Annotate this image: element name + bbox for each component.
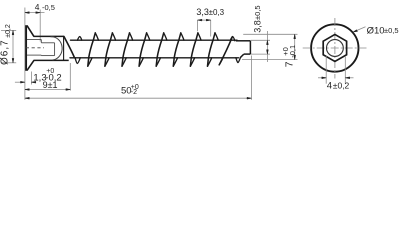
hexagon xyxy=(323,34,346,61)
socket hidden lines xyxy=(26,37,62,60)
thread period 6 flank xyxy=(173,33,181,66)
socket inner right vertical xyxy=(54,43,56,56)
thread period 8 top crest xyxy=(215,33,218,40)
socket bottom step xyxy=(40,54,42,57)
dimension 50 +0/-2 xyxy=(250,56,252,100)
thread start transition from neck xyxy=(64,36,75,57)
bottom root line xyxy=(70,57,239,59)
thread period 3 flank xyxy=(122,33,130,66)
head top cone xyxy=(27,25,34,36)
dimension 9±1 xyxy=(69,63,71,91)
svg-text:3,3: 3,3 xyxy=(196,7,209,17)
svg-text:3,8: 3,8 xyxy=(252,20,262,33)
thread runout arc xyxy=(51,37,63,60)
svg-text:±0,5: ±0,5 xyxy=(253,5,262,20)
socket dashed centerline xyxy=(26,47,44,49)
svg-text:4: 4 xyxy=(35,2,40,12)
head bottom cone xyxy=(27,60,34,70)
thread period 4 bottom crest xyxy=(139,58,143,66)
thread period 1 flank xyxy=(88,33,96,66)
thread period 3 bottom crest xyxy=(122,58,126,66)
thread period 8 flank xyxy=(208,33,216,66)
thread period 7 bottom crest xyxy=(190,58,194,66)
screw head face xyxy=(25,25,27,71)
thread period 5 flank xyxy=(156,33,164,66)
dimension 3,3±0,3 xyxy=(197,20,199,31)
last flank xyxy=(219,37,232,65)
thread period 7 flank xyxy=(190,33,198,66)
thread period 1 top crest xyxy=(95,33,98,40)
svg-text:±0,2: ±0,2 xyxy=(333,80,350,90)
thread period 4 flank xyxy=(139,33,147,66)
dimension Ø6,7±0,2 xyxy=(1,29,16,31)
socket bottom line xyxy=(27,54,41,56)
svg-text:9±1: 9±1 xyxy=(43,80,58,90)
dimension 3,8±0,5 (vertical at tip) xyxy=(251,39,270,41)
top root line xyxy=(71,39,238,41)
dimension 4 -0,5 line xyxy=(25,12,45,14)
neck top line xyxy=(34,35,64,37)
svg-text:±0,5: ±0,5 xyxy=(384,26,399,35)
tip xyxy=(236,41,250,58)
runout bottom spike xyxy=(75,58,80,64)
thread period 6 bottom crest xyxy=(173,58,177,66)
thread period 3 top crest xyxy=(130,33,133,40)
runout top spike xyxy=(77,37,81,41)
thread period 6 top crest xyxy=(181,33,184,40)
svg-text:-2: -2 xyxy=(131,89,137,96)
extension line common left (head face plane) xyxy=(24,8,26,100)
leader Ø10±0,5 xyxy=(353,27,365,32)
thread period 2 bottom crest xyxy=(105,58,109,66)
svg-text:7: 7 xyxy=(283,61,295,67)
last bottom spike (shallow, near k8) xyxy=(219,58,223,65)
svg-text:Ø6,7: Ø6,7 xyxy=(0,39,11,65)
thread period 8 bottom crest xyxy=(208,58,212,66)
dimension 1,3 +0/-0,2 xyxy=(30,72,32,85)
socket inner bottom line xyxy=(41,55,54,57)
thread period 5 top crest xyxy=(164,33,167,40)
socket top line xyxy=(27,39,41,41)
end view circle xyxy=(311,24,358,71)
thread period 2 top crest xyxy=(112,33,115,40)
thread period 1 bottom crest xyxy=(88,58,92,66)
svg-text:±0,3: ±0,3 xyxy=(209,8,225,17)
thread period 7 top crest xyxy=(198,33,201,40)
svg-text:±0,2: ±0,2 xyxy=(5,24,12,38)
thread period 5 bottom crest xyxy=(156,58,160,66)
svg-text:-0,1: -0,1 xyxy=(288,45,297,58)
thread period 4 top crest xyxy=(147,33,150,40)
dimension 4±0,2 under hexagon xyxy=(325,56,327,84)
socket inner top line xyxy=(41,42,54,44)
socket step vertical xyxy=(40,40,42,43)
neck end vertical xyxy=(63,36,65,60)
thread xyxy=(64,33,241,66)
last shallow top spike xyxy=(230,37,235,41)
socket inner circle xyxy=(327,40,344,57)
extra small bottom spike before tip xyxy=(236,58,241,63)
svg-text:-0,5: -0,5 xyxy=(42,3,55,12)
svg-text:Ø10: Ø10 xyxy=(367,26,385,37)
thread period 2 flank xyxy=(105,33,113,66)
svg-text:4: 4 xyxy=(327,80,332,91)
dimension 7 +0/-0,1 (vertical right of tip) xyxy=(243,33,297,35)
centerlines xyxy=(303,47,367,49)
neck bottom line xyxy=(34,59,69,61)
extension line right of 4-dim xyxy=(39,10,41,42)
